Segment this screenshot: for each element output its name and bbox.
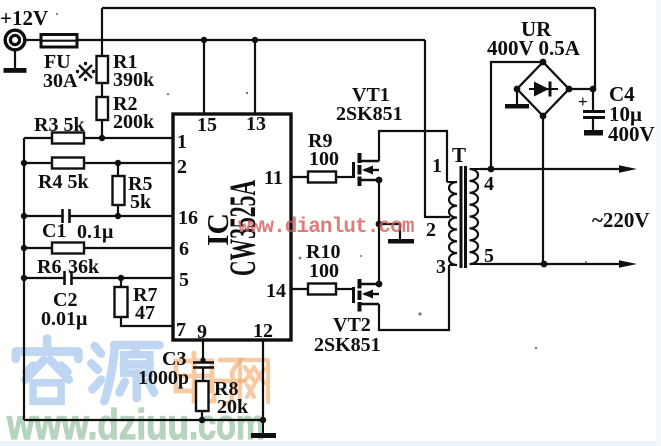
svg-text:2SK851: 2SK851 [314, 334, 381, 356]
svg-text:12: 12 [253, 320, 273, 342]
watermark rongyuan char yuan [91, 345, 159, 401]
svg-text:390k: 390k [113, 69, 155, 91]
svg-text:0.01μ: 0.01μ [41, 308, 88, 330]
node R5 top [115, 160, 121, 166]
node R7 top [118, 275, 124, 281]
wire pin15 drop [203, 40, 205, 114]
svg-text:+: + [578, 92, 588, 111]
resistor R8 20k [196, 378, 249, 418]
wire R5 bottom lead [117, 205, 119, 216]
watermark dianziwang char wang [240, 360, 268, 402]
wire pin12 drop [262, 340, 264, 420]
wire pin14 row [291, 288, 308, 290]
wire R7 bottom to pin7 [121, 317, 173, 326]
node C4 top [590, 86, 597, 93]
wire C4 node to capacitor [592, 89, 594, 110]
node ground tap [376, 221, 383, 228]
resistor R6 36k [37, 243, 100, 279]
wire pin6 row [24, 247, 52, 249]
wire C4 bottom stub [592, 119, 594, 130]
node pin13 tap [252, 37, 258, 43]
transistor VT2 2SK851 [314, 279, 381, 356]
svg-text:5: 5 [179, 269, 189, 291]
fuse FU [41, 35, 78, 93]
capacitor C3 1000p [138, 348, 214, 389]
svg-text:www.dziuu: www.dziuu [6, 402, 189, 446]
wire +12V from terminal to fuse [24, 39, 40, 41]
op-amp IC CW3525A box [173, 114, 291, 340]
resistor R5 5k [113, 173, 153, 213]
wire pin1 row [24, 137, 52, 139]
resistor R7 47 [115, 284, 158, 324]
resistor R4 5k [38, 158, 89, 194]
svg-text:30A: 30A [43, 70, 78, 92]
node bridge right [566, 86, 573, 93]
wire R5 top lead [117, 163, 119, 176]
svg-text:R6: R6 [37, 256, 61, 278]
ground at bridge negative [505, 104, 529, 109]
transformer T primary winding [426, 155, 457, 278]
svg-text:R3 5k: R3 5k [34, 114, 85, 136]
output arrow pin4 [619, 165, 637, 173]
wire bridge column drop [594, 8, 596, 89]
capacitor C4 10u 400V [578, 82, 655, 146]
wire bridge bottom to pin5 row [542, 116, 544, 264]
svg-text:2SK851: 2SK851 [336, 103, 403, 125]
svg-text:400V 0.5A: 400V 0.5A [487, 36, 581, 60]
svg-text:11: 11 [264, 167, 283, 189]
node rail pin2 [21, 160, 27, 166]
node pin12 rail [260, 417, 266, 423]
resistor R9 100 [308, 130, 339, 183]
wire pin9 drop to C3 [202, 340, 204, 362]
svg-text:47: 47 [135, 302, 155, 324]
svg-text:5: 5 [484, 245, 494, 267]
node pin5 bridge [541, 261, 548, 268]
svg-text:5k: 5k [130, 191, 152, 213]
svg-text:2: 2 [177, 156, 187, 178]
ground at VT sources [388, 239, 414, 244]
wire fuse to center-tap corner [76, 39, 425, 41]
svg-text:2: 2 [426, 219, 436, 241]
svg-text:100: 100 [309, 260, 339, 282]
resistor R2 200k [97, 93, 156, 133]
wire R9 to VT1 gate [336, 176, 352, 178]
node bridge left [514, 86, 521, 93]
svg-text:16: 16 [178, 207, 198, 229]
wire pin2 row [24, 162, 52, 164]
wire R1 to R2 [101, 83, 103, 97]
wire transformer pin4 output [480, 168, 628, 170]
svg-text:200k: 200k [113, 111, 155, 133]
output arrow pin5 [619, 260, 637, 268]
svg-text:4: 4 [484, 173, 494, 195]
wire ground branch of sources [379, 224, 400, 239]
node R5 bottom [115, 213, 121, 219]
ground at input terminal [4, 50, 27, 73]
svg-text:T: T [452, 143, 466, 167]
wire R10 to VT2 gate [336, 288, 352, 290]
wire bridge right to C4 node [569, 88, 593, 90]
svg-text:3: 3 [436, 256, 446, 278]
svg-text:6: 6 [179, 238, 189, 260]
wire bridge left stub [516, 89, 518, 104]
wire R1 column riser [101, 8, 103, 56]
wire bottom rail [24, 419, 266, 421]
watermark dianziwang char zi [216, 360, 244, 404]
svg-text:1: 1 [177, 131, 187, 153]
node rail pin6 [21, 245, 27, 251]
node R2 bottom [99, 135, 105, 141]
node bridge bottom [540, 113, 547, 120]
watermark rongyuan char rong [16, 339, 79, 402]
svg-text:C1: C1 [42, 220, 66, 242]
wire pin11 row [291, 176, 308, 178]
ground at pin 12 [251, 420, 276, 438]
svg-text:+12V: +12V [0, 6, 48, 30]
resistor R3 5k [34, 114, 85, 144]
wire C3 to R8 [202, 368, 204, 381]
wire bridge top to pin4 row [491, 62, 543, 169]
wire R2 to pin1 row [101, 120, 103, 138]
svg-text:1: 1 [432, 155, 442, 177]
node rail pin16 [21, 213, 27, 219]
resistor R10 100 [306, 241, 340, 295]
asterisk reference mark [76, 62, 95, 81]
wire R7 top lead [120, 278, 122, 287]
svg-text:9: 9 [197, 321, 207, 343]
wire top rail from R1 junction to bridge column [102, 7, 595, 9]
node pin15 tap [201, 37, 207, 43]
wire transformer pin5 output [480, 263, 628, 265]
transistor VT1 2SK851 [336, 84, 403, 186]
watermark bottom strip [0, 441, 661, 446]
node VT2 source [376, 281, 383, 288]
right edge strip [656, 0, 661, 446]
node bridge top [540, 59, 547, 66]
svg-text:36k: 36k [68, 256, 100, 278]
svg-text:100: 100 [309, 148, 339, 170]
bridge rectifier UR [487, 17, 581, 116]
wire pin13 drop [254, 40, 256, 114]
svg-text:www.dianlut.com: www.dianlut.com [238, 216, 414, 239]
node pin4 feedback [488, 166, 495, 173]
svg-text:~220V: ~220V [592, 208, 650, 232]
svg-text:1000p: 1000p [138, 367, 189, 389]
wire VT1 source to VT2 source [378, 180, 380, 284]
svg-text:VT2: VT2 [333, 314, 371, 336]
wire VT1 drain to transformer pin1 [379, 131, 447, 182]
svg-text:R4 5k: R4 5k [38, 171, 89, 193]
node VT1 source [376, 177, 383, 184]
svg-text:13: 13 [246, 113, 266, 135]
wire VT2 drain to transformer pin3 [379, 265, 449, 330]
transformer T secondary winding [470, 169, 495, 267]
terminal +12V input [0, 6, 48, 50]
scan specks [56, 13, 615, 349]
resistor R1 390k [97, 51, 156, 91]
svg-text:400V: 400V [608, 122, 655, 146]
svg-text:7: 7 [176, 319, 186, 341]
svg-text:20k: 20k [217, 396, 249, 418]
wire center tap drop to pin2 row [425, 40, 450, 217]
watermark dianziwang char dian [176, 353, 214, 401]
wire pin5 row [24, 277, 64, 279]
capacitor C1 0.1u [42, 209, 114, 243]
node R8 bottom [199, 417, 205, 423]
wire left rail [23, 138, 25, 420]
node rail pin5 [21, 275, 27, 281]
transformer T core [452, 143, 466, 268]
node C3 top [200, 357, 205, 362]
wire pin16 row [24, 215, 62, 217]
svg-text:0.1μ: 0.1μ [77, 221, 114, 243]
capacitor C2 0.01u [41, 271, 88, 330]
svg-text:14: 14 [266, 280, 286, 302]
ground at C4 [584, 130, 603, 136]
svg-text:15: 15 [197, 114, 217, 136]
wire R8 to bottom rail [201, 411, 203, 420]
